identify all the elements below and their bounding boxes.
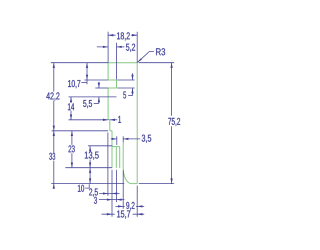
part left mid edge: [107, 88, 109, 120]
part bottom-left curve: [123, 168, 131, 183]
ext line y146.1: [88, 145, 113, 147]
arrowheads 3,5: [112, 138, 117, 140]
ext line 75,2 top: [139, 62, 174, 64]
arrowheads 5: [131, 75, 133, 80]
ext line y183.6 left: [51, 183, 124, 185]
text 42,2: [46, 92, 59, 100]
part left lower edge: [109, 120, 111, 131]
arrowheads 14: [70, 97, 72, 102]
part leg top connector: [112, 146, 120, 148]
ext line 18,2 left: [107, 32, 109, 63]
ext line y167.7: [65, 167, 112, 169]
text 13,5: [85, 152, 99, 160]
hook 10: [85, 184, 89, 188]
dim line 15,7: [102, 213, 145, 215]
dim line 10,7: [86, 63, 88, 84]
ext line notch right: [116, 43, 118, 80]
part top edge: [108, 62, 137, 64]
text 10,7: [68, 80, 80, 88]
ext line y88 right: [117, 87, 135, 89]
part leg right tooth: [119, 147, 121, 168]
hook 10,7: [81, 82, 87, 84]
arrowheads 75,2: [170, 63, 172, 68]
dim 1 left line: [69, 119, 109, 121]
ext line y62.7 left: [51, 62, 108, 64]
text 3,5: [142, 135, 151, 143]
dim line 75,2: [171, 63, 173, 184]
text R3: [156, 48, 165, 55]
part right edge: [136, 63, 138, 184]
arrowheads 15,7: [107, 213, 112, 215]
dim line 10: [89, 168, 91, 184]
dim line 42,2: [53, 63, 55, 131]
part step2 horizontal: [110, 130, 112, 132]
ext line y80 right: [117, 79, 135, 81]
ext stub 3,5 left: [116, 136, 118, 145]
arrowheads 42,2: [53, 63, 55, 68]
text 2,5: [89, 188, 98, 196]
text 75,2: [168, 118, 180, 126]
dim 5 upper stub: [132, 73, 134, 80]
dim 5,5 lower stub: [98, 97, 100, 103]
dim line 33: [53, 131, 55, 189]
text 5,2: [126, 44, 135, 52]
dim line 23: [71, 131, 73, 168]
part leg left edge: [111, 131, 113, 168]
arrowheads 1: [103, 119, 108, 121]
arrowheads 13,5: [89, 146, 91, 151]
ext stub x116.9 lower: [116, 170, 118, 202]
ext line y80 left: [84, 79, 108, 81]
ext stub x112.1 lower: [111, 170, 113, 217]
arrowheads 10: [89, 168, 91, 173]
arrowhead R3: [138, 58, 142, 62]
text 33: [49, 153, 55, 160]
text 5: [123, 92, 126, 99]
part notch top edge: [108, 79, 116, 81]
ext line y88 left: [95, 87, 108, 89]
part inner wall edge: [122, 143, 124, 169]
part left upper edge: [107, 63, 109, 80]
hook 5,5: [94, 102, 99, 104]
part leg mid tooth: [115, 147, 117, 168]
text 15,7: [117, 211, 130, 219]
dim line 9,2: [116, 205, 145, 207]
text 3: [94, 197, 97, 204]
dim line 13,5: [89, 146, 91, 168]
dim 5 lower stub: [132, 88, 134, 95]
arrowheads 10,7: [86, 63, 88, 68]
ext line y130.8: [52, 130, 108, 132]
dim 5,5 upper stub: [98, 82, 100, 88]
ext stub x137.2 lower: [136, 186, 138, 217]
part notch right edge: [116, 80, 118, 88]
arrowheads 5,5: [98, 83, 100, 88]
text 18,2: [117, 32, 130, 40]
dim 1 right tail: [110, 119, 118, 121]
text 23: [69, 145, 75, 152]
text 10: [78, 185, 84, 192]
ext line 18,2 right: [136, 32, 138, 63]
dim line 18,2: [108, 34, 137, 36]
arrowheads 2,5: [103, 192, 108, 194]
dim line 14: [70, 97, 72, 120]
text 1: [118, 116, 121, 123]
ext stub x108 lower: [107, 133, 109, 196]
dim line 3,5: [111, 138, 140, 140]
part step1 horizontal: [108, 119, 110, 121]
part notch bottom edge: [108, 87, 116, 89]
arrowheads 9,2: [118, 205, 123, 207]
dim line 5,2: [97, 46, 125, 48]
arrowheads 5,2: [103, 46, 108, 48]
arrowheads 3: [107, 198, 112, 200]
arrowheads 33: [53, 131, 55, 136]
hook 5: [128, 95, 132, 97]
dim line 2,5: [99, 193, 119, 195]
text 9,2: [126, 202, 134, 210]
arrowheads 23: [71, 131, 73, 136]
text 5,5: [83, 100, 92, 108]
text 14: [68, 103, 74, 110]
part bottom edge: [132, 183, 138, 185]
ext line y96.9: [69, 96, 117, 98]
ext stub x122.9 lower: [122, 170, 124, 209]
dim line 3: [99, 199, 125, 201]
ext stub 3,5 right: [122, 136, 124, 142]
leader R3: [138, 52, 154, 63]
arrowheads 18,2: [108, 34, 113, 36]
ext line 75,2 bottom: [139, 183, 174, 185]
